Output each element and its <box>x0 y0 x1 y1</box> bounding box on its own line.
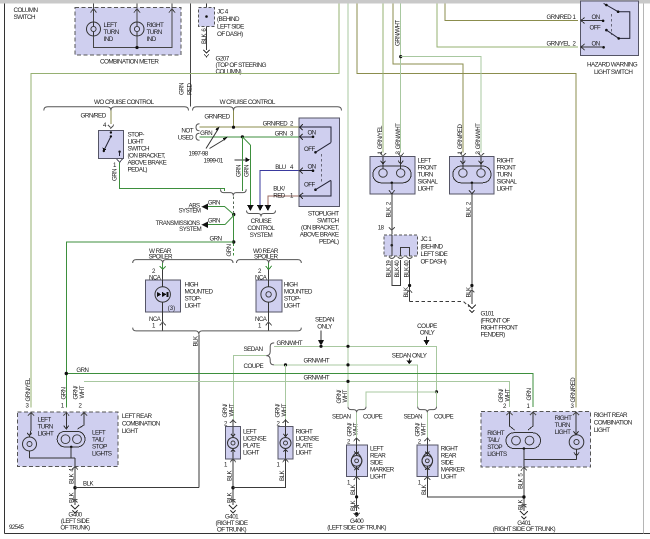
wire GRN/RED to right front turn pin1 <box>393 3 463 152</box>
svg-text:GRN: GRN <box>244 165 251 177</box>
wire GRN tail-stop feed line <box>66 374 533 408</box>
wire right turn ind feed stub <box>136 3 138 21</box>
top grey strip <box>0 0 650 3</box>
svg-text:GRN/WHT: GRN/WHT <box>304 357 330 364</box>
brace merge of GRN wires to dot <box>221 189 247 195</box>
svg-text:SEDAN: SEDAN <box>315 317 335 324</box>
svg-text:SEDAN ONLY: SEDAN ONLY <box>392 353 428 360</box>
hazard gang dashed line <box>610 14 612 35</box>
ground G207 <box>204 50 267 75</box>
svg-text:GRN/RED: GRN/RED <box>547 14 573 21</box>
svg-text:(ON BRACKET,: (ON BRACKET, <box>128 153 166 160</box>
svg-text:GRN: GRN <box>526 388 533 400</box>
wire meter internal ground bus <box>94 3 173 47</box>
wire GRN/RED 2 to stoplight switch <box>200 126 299 128</box>
svg-text:SIGNAL: SIGNAL <box>497 179 518 186</box>
svg-text:NCA: NCA <box>149 316 162 323</box>
svg-text:OFF: OFF <box>304 146 315 153</box>
svg-text:WHT: WHT <box>342 389 349 402</box>
hazard switch blade mechanism <box>604 3 630 38</box>
svg-text:STOP-: STOP- <box>284 296 301 303</box>
svg-text:STOP-: STOP- <box>185 296 202 303</box>
right front dual filament bulb <box>453 157 491 194</box>
wire GRN/RED main right loop (from top to right rear turn) <box>357 3 576 407</box>
svg-text:LEFT: LEFT <box>418 158 432 165</box>
svg-text:TURN: TURN <box>104 29 120 36</box>
wire GRN dashed to spoiler braces <box>233 244 235 259</box>
svg-text:CONTROL: CONTROL <box>247 225 275 232</box>
ground G400 left <box>60 505 90 531</box>
left tail/stop dual bulb <box>30 412 112 466</box>
svg-text:LIGHT: LIGHT <box>497 186 513 193</box>
svg-text:92545: 92545 <box>9 524 25 531</box>
left rear combination light box <box>17 412 160 466</box>
svg-text:RIGHT: RIGHT <box>487 430 505 437</box>
svg-text:SEDAN: SEDAN <box>332 413 351 420</box>
svg-text:GRN: GRN <box>61 387 68 399</box>
svg-text:LIGHT: LIGHT <box>243 450 259 457</box>
junction JC4 <box>199 3 245 50</box>
svg-text:GRN/YEL: GRN/YEL <box>547 40 571 47</box>
svg-text:HAZARD WARNING: HAZARD WARNING <box>587 62 638 69</box>
svg-text:REAR: REAR <box>441 453 457 460</box>
svg-text:TURN: TURN <box>555 422 571 429</box>
wire GRN left to rear combo feed <box>66 242 233 408</box>
svg-text:LIGHT: LIGHT <box>128 139 144 146</box>
svg-text:BLK 5: BLK 5 <box>517 473 524 489</box>
stoplight switch pin2 <box>300 124 304 130</box>
wire GRN/WHT long vertical (to left marker sedan) <box>347 3 349 406</box>
svg-text:TURN: TURN <box>497 172 513 179</box>
svg-text:GRN: GRN <box>226 244 233 256</box>
right page border <box>643 3 645 533</box>
svg-text:COMBINATION: COMBINATION <box>122 420 161 427</box>
svg-text:MOUNTED: MOUNTED <box>185 289 214 296</box>
svg-text:BLU: BLU <box>275 164 285 171</box>
wire BLU 4 to cruise control <box>260 171 298 205</box>
bottom page border <box>5 533 650 535</box>
svg-text:STOP: STOP <box>92 444 107 451</box>
svg-text:IND: IND <box>147 36 157 43</box>
svg-text:LICENSE: LICENSE <box>296 436 319 443</box>
junction JC1 <box>384 235 448 265</box>
svg-text:SYSTEM: SYSTEM <box>250 232 273 239</box>
svg-text:1997-98: 1997-98 <box>189 150 209 157</box>
svg-text:LIGHT: LIGHT <box>441 474 457 481</box>
svg-text:GRN/RED: GRN/RED <box>81 113 107 120</box>
svg-text:ON: ON <box>592 14 600 21</box>
right rear combination light box <box>481 412 633 468</box>
svg-text:OF TRUNK): OF TRUNK) <box>217 526 247 533</box>
svg-text:BLK: BLK <box>227 493 234 503</box>
wire GRN/RED to hazard pin1 <box>445 3 578 20</box>
svg-text:(RIGHT SIDE OF TRUNK): (RIGHT SIDE OF TRUNK) <box>493 526 556 533</box>
svg-text:LIGHT: LIGHT <box>370 474 386 481</box>
svg-text:LEFT: LEFT <box>370 446 384 453</box>
svg-text:W CRUISE CONTROL: W CRUISE CONTROL <box>220 99 276 106</box>
svg-text:ON: ON <box>592 41 600 48</box>
svg-text:COUPE: COUPE <box>363 413 383 420</box>
svg-text:GRN: GRN <box>200 130 212 137</box>
svg-text:WO CRUISE CONTROL: WO CRUISE CONTROL <box>94 99 155 106</box>
svg-text:BLK 4: BLK 4 <box>69 468 76 484</box>
hazard warning light switch box <box>580 1 638 76</box>
svg-text:NCA: NCA <box>255 316 268 323</box>
svg-text:STOP: STOP <box>487 444 502 451</box>
svg-text:GRN/WHT: GRN/WHT <box>395 20 402 46</box>
bracket under cruise arrows <box>247 211 276 217</box>
svg-text:BLK: BLK <box>421 485 428 495</box>
svg-text:GRN: GRN <box>275 130 287 137</box>
wire GRN branch B to cruise control system <box>242 137 250 145</box>
wire GRN down to rear light feed <box>233 215 235 243</box>
svg-text:MARKER: MARKER <box>441 467 466 474</box>
svg-text:RED: RED <box>186 83 193 95</box>
wire BLK trunk bus to stop-lights <box>75 487 199 489</box>
svg-text:SYSTEM: SYSTEM <box>178 208 200 215</box>
high mounted stop-light (wo spoiler, bulb) <box>268 263 270 269</box>
svg-text:OF DASH): OF DASH) <box>217 31 243 38</box>
svg-text:LEFT SIDE: LEFT SIDE <box>217 24 244 31</box>
svg-text:BLK: BLK <box>279 471 286 481</box>
wire GRN/WHT tail feed line <box>84 381 510 407</box>
wire GRN/WHT coupe line <box>274 365 418 407</box>
svg-text:OF TRUNK): OF TRUNK) <box>60 524 90 531</box>
svg-text:GRN: GRN <box>178 83 185 95</box>
svg-text:3 GRN/WHT: 3 GRN/WHT <box>395 123 402 155</box>
svg-text:COLUMN): COLUMN) <box>216 68 242 75</box>
stoplight switch pin4 ON contact <box>300 168 304 174</box>
svg-text:SIDE: SIDE <box>370 460 383 467</box>
svg-text:LIGHT: LIGHT <box>185 303 201 310</box>
wire GRN/RED drop to stop-light switch <box>110 111 112 125</box>
svg-text:COLUMN: COLUMN <box>14 7 39 14</box>
svg-text:(BEHIND: (BEHIND <box>217 16 240 23</box>
svg-text:(FRONT OF: (FRONT OF <box>481 318 511 325</box>
svg-text:SYSTEM: SYSTEM <box>179 226 201 233</box>
svg-text:GRN/RED: GRN/RED <box>263 121 289 128</box>
svg-text:1 GRN/YEL: 1 GRN/YEL <box>377 125 384 155</box>
svg-text:BLK: BLK <box>403 287 410 297</box>
wire GRN/RED from column switch (black) <box>190 3 192 106</box>
wire GRN/WHT drop to right license <box>285 365 287 420</box>
wire BLK 2 right front to G101 <box>471 194 473 304</box>
wire GRN 3 to stoplight switch <box>200 136 299 138</box>
svg-text:REAR: REAR <box>370 453 386 460</box>
svg-text:GRN: GRN <box>235 165 242 177</box>
lamp LEFT TURN IND <box>87 22 120 43</box>
svg-text:FRONT: FRONT <box>497 165 517 172</box>
lamp RIGHT TURN IND <box>130 22 164 43</box>
svg-text:BLK: BLK <box>69 493 76 503</box>
svg-text:LIGHT: LIGHT <box>284 303 300 310</box>
svg-text:GRN: GRN <box>208 218 220 225</box>
wire GRN to transmissions system <box>207 224 225 226</box>
svg-text:BLK/: BLK/ <box>273 185 285 192</box>
svg-text:(LEFT SIDE OF TRUNK): (LEFT SIDE OF TRUNK) <box>327 525 386 532</box>
wire BLK 4 left rear to G400 <box>72 466 78 469</box>
svg-text:BLK: BLK <box>227 471 234 481</box>
connector ticks <box>73 499 78 502</box>
svg-text:RED: RED <box>273 193 285 200</box>
svg-text:LEFT SIDE: LEFT SIDE <box>421 251 448 258</box>
svg-text:WHT: WHT <box>421 422 428 435</box>
svg-text:MARKER: MARKER <box>370 467 395 474</box>
svg-text:WHT: WHT <box>504 388 511 401</box>
svg-text:COUPE: COUPE <box>434 413 454 420</box>
right front turn signal light box <box>449 157 517 195</box>
wire BLK 5 right rear to G401 <box>521 467 527 470</box>
svg-text:WHT: WHT <box>281 403 288 416</box>
svg-text:BLK: BLK <box>350 485 357 495</box>
svg-text:RIGHT: RIGHT <box>147 22 165 29</box>
svg-text:WHT: WHT <box>228 403 235 416</box>
svg-text:LIGHT: LIGHT <box>555 429 571 436</box>
svg-text:COMBINATION METER: COMBINATION METER <box>100 58 159 65</box>
wire GRN/WHT merged feed to left license <box>234 356 267 420</box>
svg-text:FENDER): FENDER) <box>481 332 506 339</box>
svg-text:3 GRN/WHT: 3 GRN/WHT <box>475 123 482 155</box>
stoplight switch pin3 ON contact <box>300 134 304 140</box>
svg-text:SIDE: SIDE <box>441 460 454 467</box>
svg-text:USED: USED <box>178 134 194 141</box>
svg-text:GRN/WHT: GRN/WHT <box>304 375 330 382</box>
svg-text:WHT: WHT <box>79 385 86 398</box>
svg-text:BLK 6: BLK 6 <box>201 28 208 44</box>
svg-text:ON: ON <box>308 130 316 137</box>
svg-text:OFF: OFF <box>590 25 601 32</box>
svg-text:HIGH: HIGH <box>185 282 200 289</box>
svg-text:RIGHT: RIGHT <box>555 415 573 422</box>
stoplight switch pin1 <box>300 193 304 199</box>
svg-text:LEFT: LEFT <box>243 429 257 436</box>
svg-text:BLK: BLK <box>465 287 472 297</box>
wire GRN/YEL to left front turn pin1 <box>382 3 384 152</box>
svg-text:ONLY: ONLY <box>317 324 333 331</box>
wire left turn ind feed stub <box>93 3 95 21</box>
wire GRN/WHT coupe branch to markers <box>435 390 438 393</box>
wire BLK 2 left front to JC1 <box>391 194 393 235</box>
wire GRN to ABS system <box>207 206 225 208</box>
wire GRN from stop-light switch to cruise brace <box>117 159 123 163</box>
svg-text:LICENSE: LICENSE <box>243 436 266 443</box>
svg-text:BLK 2: BLK 2 <box>465 201 472 217</box>
svg-text:CRUISE: CRUISE <box>251 218 272 225</box>
ground G101 <box>468 305 518 339</box>
svg-text:(3): (3) <box>168 305 175 312</box>
ground G400 marker <box>327 513 386 532</box>
stoplight switch gang dashed <box>321 154 323 184</box>
wire GRN/YEL main left loop (from top to left rear turn) <box>31 3 339 407</box>
svg-text:SWITCH: SWITCH <box>14 14 37 21</box>
hazard pin2 arrow ON <box>581 44 585 50</box>
svg-text:LEFT: LEFT <box>38 417 52 424</box>
wire BLK from JC1 to G101 <box>409 260 411 302</box>
svg-text:RIGHT: RIGHT <box>497 158 515 165</box>
svg-text:LIGHTS: LIGHTS <box>487 451 507 458</box>
svg-text:ONLY: ONLY <box>420 329 436 336</box>
svg-text:MOUNTED: MOUNTED <box>284 289 313 296</box>
svg-text:GRN: GRN <box>210 235 222 242</box>
stoplight switch box (large) <box>299 118 339 246</box>
svg-text:RIGHT: RIGHT <box>441 446 459 453</box>
left front turn signal light box <box>370 157 438 195</box>
left page border <box>4 3 6 533</box>
right tail/stop dual bulb <box>487 412 540 459</box>
svg-text:SEDAN: SEDAN <box>244 346 264 353</box>
svg-text:OFF: OFF <box>304 181 315 188</box>
svg-text:BLK: BLK <box>192 336 199 346</box>
svg-text:COMBINATION: COMBINATION <box>594 419 633 426</box>
svg-text:GRN: GRN <box>208 200 220 207</box>
JC1 lower pins <box>389 257 395 259</box>
svg-text:ABOVE BRAKE: ABOVE BRAKE <box>300 232 339 239</box>
svg-text:FRONT: FRONT <box>418 165 438 172</box>
svg-text:COUPE: COUPE <box>244 363 264 370</box>
svg-text:JC 1: JC 1 <box>421 236 433 243</box>
right turn light bulb <box>555 412 584 459</box>
svg-text:TAIL/: TAIL/ <box>487 437 500 444</box>
svg-text:TAIL/: TAIL/ <box>92 437 105 444</box>
svg-text:GRN: GRN <box>76 367 88 374</box>
ground G401 right <box>493 511 556 533</box>
svg-text:LIGHT: LIGHT <box>418 186 434 193</box>
svg-text:STOPLIGHT: STOPLIGHT <box>308 211 339 218</box>
svg-text:TURN: TURN <box>147 29 163 36</box>
svg-text:PEDAL): PEDAL) <box>319 239 339 246</box>
svg-text:G101: G101 <box>481 311 495 318</box>
svg-text:HIGH: HIGH <box>284 282 299 289</box>
svg-text:BLK: BLK <box>83 481 93 488</box>
cruise control system arrows <box>247 205 254 211</box>
svg-text:ON: ON <box>308 164 316 171</box>
svg-text:GRN/RED: GRN/RED <box>204 113 230 120</box>
svg-text:SWITCH: SWITCH <box>128 146 151 153</box>
svg-text:GRN/RED: GRN/RED <box>570 377 577 403</box>
svg-text:1999-01: 1999-01 <box>204 158 224 165</box>
wire BLK U loop under JC1 <box>392 260 401 286</box>
high mounted stop-light (w spoiler, LED) <box>162 263 164 269</box>
svg-text:TURN: TURN <box>418 172 434 179</box>
svg-text:IND: IND <box>104 36 114 43</box>
wire GRN/WHT to front turn pin3 both sides <box>400 3 402 152</box>
svg-text:RIGHT: RIGHT <box>296 429 314 436</box>
svg-text:SWITCH: SWITCH <box>317 218 340 225</box>
hazard pin1 arrow ON <box>581 18 585 24</box>
wire GRN/RED stub to GRN/RED wire dot <box>233 111 235 128</box>
svg-text:1 GRN/RED: 1 GRN/RED <box>457 124 464 155</box>
left front dual filament bulb <box>373 157 411 194</box>
svg-text:STOP-: STOP- <box>128 132 145 139</box>
svg-text:LIGHT: LIGHT <box>296 450 312 457</box>
svg-text:LEFT REAR: LEFT REAR <box>122 413 153 420</box>
svg-text:LIGHT: LIGHT <box>122 428 138 435</box>
svg-text:ABOVE BRAKE: ABOVE BRAKE <box>128 160 167 167</box>
svg-text:LIGHT: LIGHT <box>38 431 54 438</box>
svg-text:BLK 2: BLK 2 <box>385 201 392 217</box>
svg-text:SEDAN: SEDAN <box>404 413 423 420</box>
svg-text:GRN/YEL: GRN/YEL <box>25 377 32 401</box>
svg-text:PLATE: PLATE <box>296 443 313 450</box>
svg-text:PLATE: PLATE <box>243 443 260 450</box>
svg-text:LIGHT: LIGHT <box>594 427 610 434</box>
svg-text:PEDAL): PEDAL) <box>128 167 148 174</box>
svg-text:RIGHT REAR: RIGHT REAR <box>594 412 628 419</box>
svg-text:GRN: GRN <box>112 169 119 181</box>
wire GRN/YEL to hazard pin2 <box>437 3 578 47</box>
svg-text:LIGHTS: LIGHTS <box>92 451 112 458</box>
svg-text:NOT: NOT <box>181 127 193 134</box>
svg-text:LEFT: LEFT <box>92 430 106 437</box>
wire GRN branch A to cruise brace <box>241 137 243 191</box>
svg-text:(ON BRACKET,: (ON BRACKET, <box>301 225 339 232</box>
svg-text:RIGHT FRONT: RIGHT FRONT <box>481 325 519 332</box>
svg-text:GRN/WHT: GRN/WHT <box>277 340 303 347</box>
wire BLK/RED 1 to cruise control <box>268 196 299 205</box>
combination meter box <box>75 8 181 66</box>
bracket merge below stop-lights <box>133 328 302 335</box>
svg-text:JC 4: JC 4 <box>217 9 229 16</box>
svg-text:TURN: TURN <box>38 424 54 431</box>
wire BLK from stop-lights to trunk ground bus <box>198 334 200 487</box>
svg-text:LIGHT SWITCH: LIGHT SWITCH <box>594 69 633 76</box>
left turn light bulb <box>23 412 54 458</box>
stop-light switch (1997-98) <box>99 130 167 173</box>
svg-text:(BEHIND: (BEHIND <box>421 244 444 251</box>
svg-text:OF DASH): OF DASH) <box>421 259 447 266</box>
ground G401 license <box>216 505 248 533</box>
svg-text:LEFT: LEFT <box>104 22 118 29</box>
right rear internal ground bus <box>524 459 577 467</box>
svg-text:SIGNAL: SIGNAL <box>418 179 439 186</box>
wire GRN/WHT sedan line <box>274 346 437 392</box>
